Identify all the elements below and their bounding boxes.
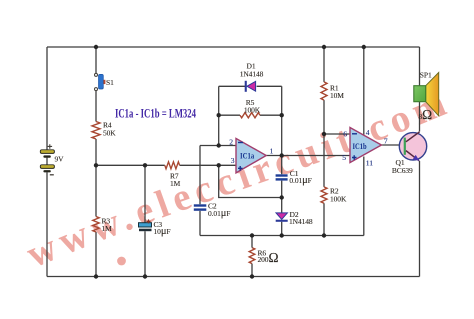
svg-text:IC1b: IC1b: [353, 141, 367, 151]
wire speaker to Q1 collector: [419, 102, 421, 132]
svg-text:5: 5: [342, 153, 346, 162]
wire speaker column top: [419, 47, 421, 86]
wire pin3 line right: [180, 164, 236, 166]
svg-text:1: 1: [270, 147, 274, 156]
node pin2: [217, 143, 221, 147]
wire C2 column: [199, 146, 201, 236]
svg-text:11: 11: [366, 159, 374, 168]
svg-text:1N4148: 1N4148: [289, 217, 313, 226]
svg-text:2: 2: [229, 137, 233, 146]
watermark www.eleccircuit.com: [20, 79, 474, 276]
svg-text:BC639: BC639: [392, 166, 413, 175]
node C3 top: [143, 163, 147, 167]
node R5 left: [217, 113, 221, 117]
wire pin11 net horizontal: [200, 235, 364, 237]
svg-text:IC1a: IC1a: [240, 151, 255, 161]
wire loop left vertical: [218, 86, 220, 145]
node IC1a out: [280, 153, 284, 157]
svg-text:1M: 1M: [102, 224, 113, 233]
wire R6 stubs: [251, 236, 253, 277]
svg-text:0.01μF: 0.01μF: [208, 208, 230, 219]
capacitor C1 0.01uF: [276, 174, 288, 180]
wire C3 column: [144, 165, 146, 276]
svg-text:10M: 10M: [330, 91, 344, 100]
wire IC1a output to pin5: [266, 155, 350, 157]
svg-text:0.01μF: 0.01μF: [289, 175, 311, 186]
wire IC1b output to Q1 base: [381, 144, 403, 146]
wire pin2 line: [200, 145, 236, 147]
diode D2 1N4148: [276, 213, 288, 222]
node top pin4: [362, 45, 366, 49]
wire pin3 L link: [219, 165, 282, 197]
svg-text:7: 7: [384, 136, 388, 145]
node C3 bottom: [143, 274, 147, 278]
node C1 D2: [280, 195, 284, 199]
wire D1 row: [219, 85, 282, 87]
op-amp IC1a (LM324): [236, 138, 266, 173]
wire Q1 emitter to bottom rail: [419, 161, 421, 277]
svg-text:6: 6: [343, 129, 347, 138]
node R5 right: [280, 113, 284, 117]
wire pin11 vertical: [363, 157, 365, 236]
resistor R2 100K: [321, 187, 327, 203]
wire S1 column top: [95, 47, 97, 73]
svg-text:1N4148: 1N4148: [240, 70, 264, 79]
node top R1: [322, 45, 326, 49]
wire R1 column top: [323, 47, 325, 82]
node pin6: [322, 132, 326, 136]
op-amp IC1b (LM324): [350, 128, 381, 163]
wire R5 row: [219, 114, 282, 116]
resistor R1 10M: [321, 82, 327, 100]
resistor R3 1M: [93, 217, 99, 232]
capacitor C3 10uF electrolytic: [139, 219, 152, 231]
capacitor C2 0.01uF: [194, 204, 207, 210]
wire between battery cells: [46, 158, 48, 165]
switch S1: [95, 73, 106, 90]
svg-text:1M: 1M: [170, 179, 181, 188]
wire S1 to R4: [95, 91, 97, 122]
node R4 R3 R7: [94, 163, 98, 167]
wire R3 column: [95, 165, 97, 276]
wire bottom rail: [47, 276, 420, 278]
resistor R5 100K: [240, 113, 260, 118]
svg-text:3: 3: [231, 156, 235, 165]
resistor R7 1M: [165, 162, 180, 169]
wire top rail: [47, 46, 420, 48]
svg-text:100K: 100K: [244, 106, 261, 115]
diode D1 1N4148: [245, 81, 256, 92]
wire left rail lower: [46, 172, 48, 276]
wire pin4 vertical: [363, 47, 365, 135]
transistor Q1 BC639: [399, 132, 426, 161]
node R3 bottom: [94, 274, 98, 278]
wire left rail upper: [46, 47, 48, 150]
node top S1: [94, 45, 98, 49]
node D2 bottom: [280, 233, 284, 237]
wire R2 column: [323, 134, 325, 236]
svg-text:9V: 9V: [55, 155, 65, 164]
svg-text:50K: 50K: [103, 129, 116, 138]
wire pin6: [324, 133, 350, 135]
resistor R6 200ohm: [249, 248, 255, 264]
wire loop right vertical: [281, 86, 283, 155]
svg-text:100K: 100K: [330, 195, 347, 204]
battery 9V: [40, 144, 54, 175]
svg-text:10μF: 10μF: [154, 226, 171, 237]
svg-text:SP1: SP1: [420, 71, 432, 80]
node R6 bottom: [250, 274, 254, 278]
svg-text:www.eleccircuit.com: www.eleccircuit.com: [20, 79, 456, 276]
svg-text:4: 4: [366, 128, 370, 137]
node R2 bottom: [322, 233, 326, 237]
wire pin3 line left: [96, 164, 165, 166]
node R6 top: [250, 233, 254, 237]
speaker SP1: [414, 73, 439, 116]
svg-text:IC1a - IC1b = LM324: IC1a - IC1b = LM324: [115, 106, 196, 121]
wire R1 to pin6: [323, 100, 325, 134]
pin numbers: [229, 128, 388, 167]
node pin3: [217, 163, 221, 167]
wire R4 to junction: [95, 139, 97, 165]
resistor R4 50K: [92, 122, 100, 140]
wire C1 D2 column: [281, 156, 283, 236]
svg-text:S1: S1: [106, 78, 114, 87]
